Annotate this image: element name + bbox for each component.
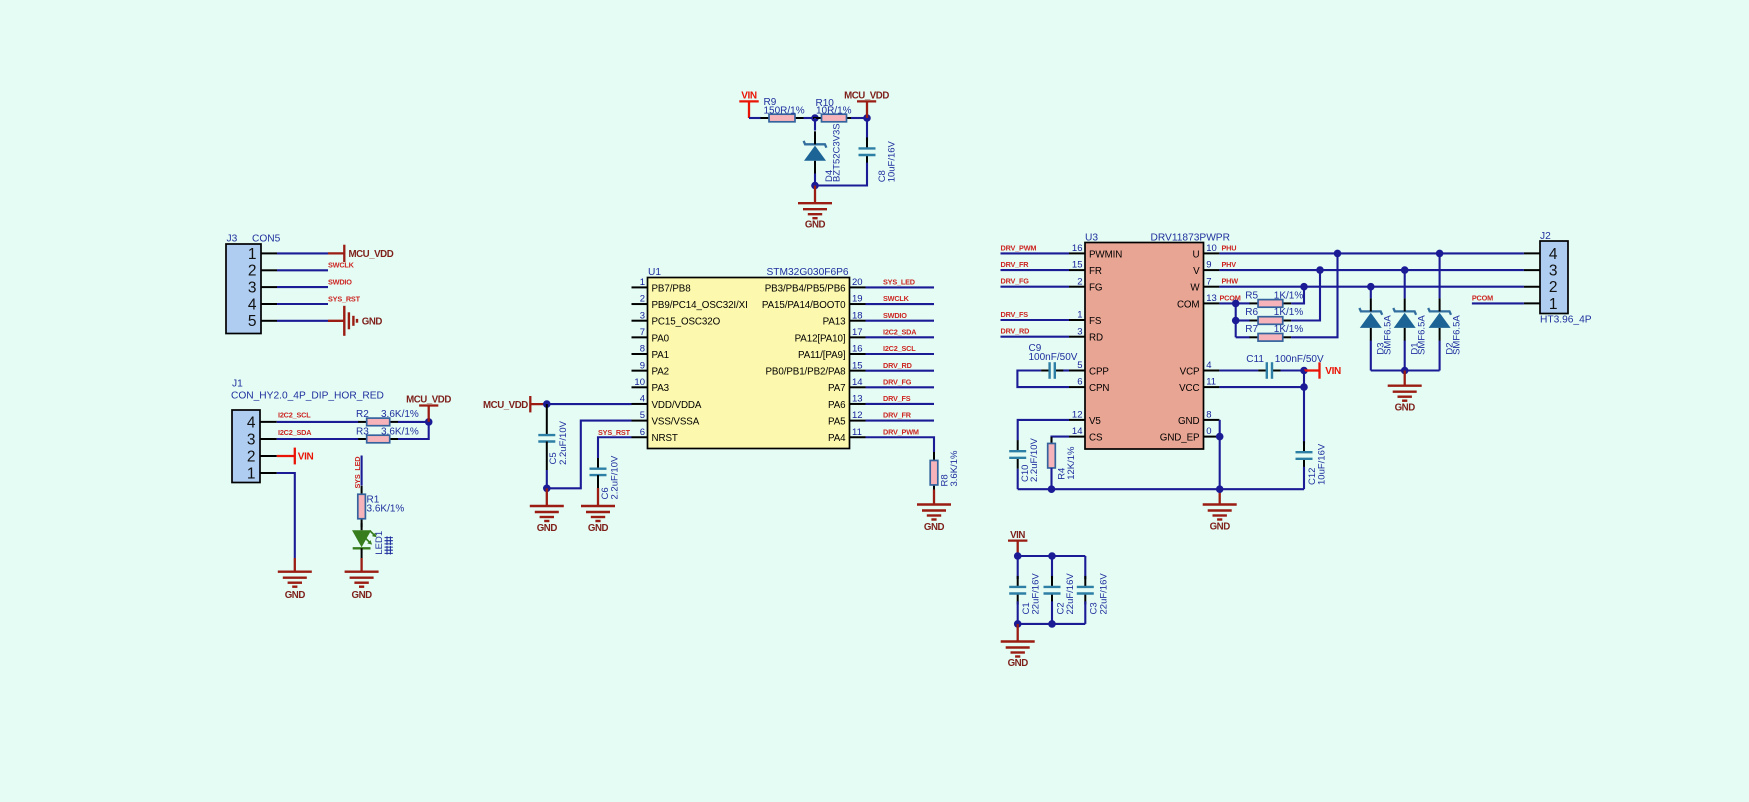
svg-text:16: 16 xyxy=(852,344,863,355)
pin 15 of U3 (FR) xyxy=(1069,260,1102,277)
svg-text:PA13: PA13 xyxy=(823,317,846,328)
pin 3 of J3 xyxy=(248,280,277,297)
svg-text:PA12[PA10]: PA12[PA10] xyxy=(795,333,846,344)
pin 9 of U1 (PA2) xyxy=(632,360,670,377)
svg-text:3.6K/1%: 3.6K/1% xyxy=(381,426,419,437)
wire xyxy=(851,117,867,119)
resistor R9 xyxy=(761,114,804,122)
svg-text:CPN: CPN xyxy=(1089,383,1109,394)
wire COM vertical xyxy=(1235,303,1237,337)
svg-text:U1: U1 xyxy=(648,267,661,278)
svg-text:GND_EP: GND_EP xyxy=(1160,433,1200,444)
junction xyxy=(1048,620,1056,628)
value (green LED chinese, vertical) xyxy=(385,536,393,554)
svg-text:2.2uF/10V: 2.2uF/10V xyxy=(1029,438,1040,482)
svg-text:PA6: PA6 xyxy=(828,400,846,411)
resistor R5 xyxy=(1250,300,1292,308)
wire xyxy=(277,473,295,558)
svg-text:VIN: VIN xyxy=(741,90,757,101)
wire R6 to V xyxy=(1291,270,1320,320)
svg-text:PA5: PA5 xyxy=(828,417,846,428)
junction GND_EP xyxy=(1216,433,1224,441)
svg-text:NRST: NRST xyxy=(652,433,678,444)
svg-text:3: 3 xyxy=(248,280,257,297)
svg-text:DRV_PWM: DRV_PWM xyxy=(883,427,919,436)
svg-text:PB0/PB1/PB2/PA8: PB0/PB1/PB2/PA8 xyxy=(765,367,846,378)
svg-text:CPP: CPP xyxy=(1089,366,1109,377)
svg-text:DRV_FG: DRV_FG xyxy=(883,377,912,386)
pin 5 of J3 xyxy=(248,313,277,330)
junction xyxy=(1048,485,1056,493)
diode D3 xyxy=(1359,298,1382,341)
power flag MCU_VDD (J3 pin1) xyxy=(328,245,394,262)
svg-text:3: 3 xyxy=(247,431,256,448)
wire D1 bottom xyxy=(1404,341,1406,371)
capacitor C3 xyxy=(1077,576,1094,605)
pin 2 of J3 xyxy=(248,263,277,280)
wire xyxy=(1001,269,1070,271)
wire C2 top xyxy=(1051,556,1053,579)
wire xyxy=(866,303,935,305)
pin 6 of U3 (CPN) xyxy=(1069,377,1109,394)
resistor R7 xyxy=(1250,334,1292,342)
wire diode rail xyxy=(1371,369,1440,371)
svg-text:10R/1%: 10R/1% xyxy=(816,105,852,116)
wire COM xyxy=(1219,302,1235,304)
op-amp U3 (driver DRV11873PWPR) xyxy=(1085,243,1204,450)
power flag MCU_VDD (U1) xyxy=(483,396,547,412)
svg-text:PA2: PA2 xyxy=(652,367,670,378)
svg-text:LED1: LED1 xyxy=(374,531,385,555)
wire xyxy=(866,420,935,422)
svg-text:DRV11873PWPR: DRV11873PWPR xyxy=(1151,232,1230,243)
ground xyxy=(798,186,832,231)
pin 4 of J1 xyxy=(247,414,277,431)
pin 9 of U3 (V) xyxy=(1193,260,1219,277)
wire xyxy=(398,422,429,439)
svg-text:DRV_RD: DRV_RD xyxy=(883,361,912,370)
pin 15 of U1 (PB0/PB1/PB2/PA8) xyxy=(765,360,865,377)
wire xyxy=(277,286,328,288)
svg-text:CON5: CON5 xyxy=(252,233,281,244)
junction xyxy=(1014,552,1022,560)
svg-text:R6: R6 xyxy=(1245,307,1258,318)
svg-text:VIN: VIN xyxy=(298,452,314,463)
wire xyxy=(546,470,548,488)
svg-text:PHW: PHW xyxy=(1222,277,1239,286)
svg-text:3.6K/1%: 3.6K/1% xyxy=(381,409,419,420)
ground xyxy=(345,558,379,601)
svg-text:1: 1 xyxy=(1077,310,1082,321)
svg-text:C11: C11 xyxy=(1246,354,1264,365)
svg-text:100nF/50V: 100nF/50V xyxy=(1275,354,1324,365)
ground xyxy=(917,490,951,533)
svg-text:V: V xyxy=(1193,266,1200,277)
svg-text:14: 14 xyxy=(1072,426,1083,437)
svg-text:MCU_VDD: MCU_VDD xyxy=(349,249,394,260)
wire xyxy=(1001,336,1070,338)
wire xyxy=(277,320,328,322)
svg-text:6: 6 xyxy=(1077,377,1082,388)
wire xyxy=(866,286,935,288)
wire xyxy=(804,117,816,119)
svg-text:12K/1%: 12K/1% xyxy=(1066,446,1077,480)
svg-text:J2: J2 xyxy=(1540,231,1551,242)
wire xyxy=(814,174,816,186)
capacitor C12 xyxy=(1296,441,1313,470)
svg-text:PB9/PC14_OSC32I/XI: PB9/PC14_OSC32I/XI xyxy=(652,300,748,311)
junction xyxy=(1300,283,1308,291)
capacitor C1 xyxy=(1009,576,1026,605)
pin 2 of U1 (PB9/PC14_OSC32I/XI) xyxy=(632,294,748,311)
svg-text:22uF/16V: 22uF/16V xyxy=(1098,573,1109,615)
svg-text:22uF/16V: 22uF/16V xyxy=(1065,573,1076,615)
connector J3 xyxy=(226,244,261,334)
ground xyxy=(530,488,564,534)
svg-text:9: 9 xyxy=(1206,260,1211,271)
junction xyxy=(1216,485,1224,493)
wire VCC vertical xyxy=(1303,371,1305,445)
svg-text:SWCLK: SWCLK xyxy=(883,294,910,303)
wire D2 bottom xyxy=(1439,341,1441,371)
svg-text:SYS_RST: SYS_RST xyxy=(598,428,631,437)
pin 16 of U1 (PA11/[PA9]) xyxy=(798,344,865,361)
pin 5 of U1 (VSS/VSSA) xyxy=(632,410,700,427)
wire D3 top xyxy=(1370,287,1372,299)
wire xyxy=(866,370,935,372)
pin 3 of U3 (RD) xyxy=(1069,326,1103,343)
svg-text:3.6K/1%: 3.6K/1% xyxy=(949,450,960,486)
diode D4 xyxy=(804,131,827,174)
svg-text:PA1: PA1 xyxy=(652,350,670,361)
capacitor C2 xyxy=(1044,576,1061,605)
pin 14 of U3 (CS) xyxy=(1069,426,1103,443)
wire CS xyxy=(1052,437,1070,444)
svg-text:1: 1 xyxy=(248,246,257,263)
pin 10 of U1 (PA3) xyxy=(632,377,670,394)
wire xyxy=(277,252,328,254)
pin 11 of U3 (VCC) xyxy=(1179,377,1219,394)
svg-text:J1: J1 xyxy=(232,378,243,389)
junction xyxy=(1232,317,1240,325)
pin 8 of U3 (GND) xyxy=(1178,410,1219,427)
wire D2 top xyxy=(1439,253,1441,298)
svg-text:2: 2 xyxy=(1549,279,1558,296)
svg-text:1: 1 xyxy=(1549,296,1558,313)
diode D2 xyxy=(1428,298,1451,341)
svg-text:16: 16 xyxy=(1072,243,1083,254)
svg-text:PC15_OSC32O: PC15_OSC32O xyxy=(652,317,721,328)
svg-text:0: 0 xyxy=(1206,426,1211,437)
pin 2 of J2 xyxy=(1524,279,1558,296)
junction xyxy=(1232,300,1240,308)
capacitor C8 xyxy=(859,137,876,166)
svg-text:PB3/PB4/PB5/PB6: PB3/PB4/PB5/PB6 xyxy=(765,283,846,294)
svg-text:PA3: PA3 xyxy=(652,383,670,394)
wire xyxy=(1001,286,1070,288)
svg-text:VCP: VCP xyxy=(1180,366,1200,377)
svg-text:R2: R2 xyxy=(356,409,369,420)
junction node MCU_VDD xyxy=(863,114,871,122)
wire xyxy=(866,386,935,388)
wire xyxy=(1001,252,1070,254)
junction D3 xyxy=(1367,283,1375,291)
junction VSS/C5 xyxy=(543,485,551,493)
pin 5 of U3 (CPP) xyxy=(1069,360,1109,377)
wire xyxy=(1050,468,1052,489)
svg-text:R3: R3 xyxy=(356,426,369,437)
svg-text:FR: FR xyxy=(1089,266,1102,277)
svg-text:SWDIO: SWDIO xyxy=(328,278,352,287)
svg-text:I2C2_SCL: I2C2_SCL xyxy=(883,344,916,353)
capacitor C10 xyxy=(1009,440,1026,469)
pin 13 of U3 (COM) xyxy=(1177,293,1219,310)
svg-text:DRV_FS: DRV_FS xyxy=(1001,310,1029,319)
svg-text:SMF6.5A: SMF6.5A xyxy=(1383,315,1394,355)
pin 7 of U1 (PA0) xyxy=(632,327,670,344)
wire D3 bottom xyxy=(1370,341,1372,371)
svg-text:2: 2 xyxy=(248,263,257,280)
svg-text:1: 1 xyxy=(640,277,645,288)
pin 18 of U1 (PA13) xyxy=(823,310,866,327)
connector J2 xyxy=(1540,241,1568,314)
svg-text:SYS_RST: SYS_RST xyxy=(328,294,361,303)
power flag MCU_VDD (J1) xyxy=(406,395,451,422)
wire R5 to W xyxy=(1291,287,1304,304)
wire C3 top xyxy=(1084,556,1086,579)
svg-text:4: 4 xyxy=(248,296,257,313)
wire xyxy=(1059,369,1070,371)
wire xyxy=(277,303,328,305)
svg-text:GND: GND xyxy=(352,590,373,601)
svg-text:15: 15 xyxy=(852,360,863,371)
svg-text:14: 14 xyxy=(852,377,863,388)
wire ground rail xyxy=(1018,488,1304,490)
svg-text:1K/1%: 1K/1% xyxy=(1274,324,1304,335)
svg-text:5: 5 xyxy=(640,410,645,421)
svg-text:GND: GND xyxy=(1008,658,1029,669)
pin 2 of J1 xyxy=(247,448,277,465)
wire R7 to U xyxy=(1291,253,1337,337)
ground xyxy=(1001,624,1035,669)
svg-text:I2C2_SDA: I2C2_SDA xyxy=(278,428,312,437)
pin 4 of J3 xyxy=(248,296,277,313)
wire CPN loop xyxy=(1017,371,1069,388)
svg-text:10uF/16V: 10uF/16V xyxy=(1317,443,1328,485)
svg-text:VDD/VDDA: VDD/VDDA xyxy=(652,400,702,411)
svg-text:2: 2 xyxy=(1077,276,1082,287)
svg-text:13: 13 xyxy=(852,394,863,405)
svg-text:11: 11 xyxy=(852,427,862,438)
pin 17 of U1 (PA12[PA10]) xyxy=(795,327,866,344)
svg-text:SWDIO: SWDIO xyxy=(883,311,907,320)
wire COM to R5 xyxy=(1236,302,1250,304)
capacitor C5 xyxy=(538,404,555,470)
wire phase W xyxy=(1219,286,1524,288)
pin 3 of J2 xyxy=(1524,263,1558,280)
wire GND to rail xyxy=(1219,420,1221,489)
svg-text:GND: GND xyxy=(1178,416,1199,427)
op-amp U1 (MCU STM32G030F6P6) xyxy=(648,278,850,449)
svg-text:1K/1%: 1K/1% xyxy=(1274,307,1304,318)
svg-text:100nF/50V: 100nF/50V xyxy=(1029,352,1078,363)
pin 10 of U3 (U) xyxy=(1193,243,1220,260)
svg-text:19: 19 xyxy=(852,294,863,305)
pin 13 of U1 (PA6) xyxy=(828,394,866,411)
svg-text:RD: RD xyxy=(1089,333,1103,344)
wire xyxy=(277,421,359,423)
power flag VIN (C11) xyxy=(1304,362,1341,378)
junction xyxy=(1048,552,1056,560)
svg-text:1K/1%: 1K/1% xyxy=(1274,290,1304,301)
pin 12 of U3 (V5) xyxy=(1069,410,1101,427)
svg-text:DRV_FS: DRV_FS xyxy=(883,394,911,403)
svg-text:7: 7 xyxy=(640,327,645,338)
wire C1 top xyxy=(1017,556,1019,579)
ground (J3 pin5, rotated) xyxy=(328,306,382,336)
wire xyxy=(277,269,328,271)
svg-text:DRV_FR: DRV_FR xyxy=(883,411,912,420)
svg-text:FG: FG xyxy=(1089,283,1102,294)
svg-text:10: 10 xyxy=(1206,243,1217,254)
svg-text:8: 8 xyxy=(1206,410,1211,421)
wire V5 xyxy=(1018,420,1069,441)
resistor R1 xyxy=(358,486,366,528)
ground xyxy=(1203,489,1237,532)
pin 1 of J1 xyxy=(247,465,277,482)
svg-text:V5: V5 xyxy=(1089,416,1101,427)
junction xyxy=(811,182,819,190)
junction MCU_VDD/C5 xyxy=(543,400,551,408)
resistor R8 xyxy=(930,452,938,494)
svg-text:GND: GND xyxy=(362,317,383,328)
svg-text:4: 4 xyxy=(1549,246,1558,263)
pin 1 of U1 (PB7/PB8) xyxy=(632,277,692,294)
svg-text:W: W xyxy=(1190,283,1200,294)
svg-text:17: 17 xyxy=(852,327,863,338)
pin 1 of U3 (FS) xyxy=(1069,310,1102,327)
wire NRST xyxy=(598,437,632,458)
wire VIN rail xyxy=(1018,555,1086,557)
wire ground rail (caps) xyxy=(1018,623,1086,625)
svg-text:2: 2 xyxy=(640,294,645,305)
junction xyxy=(1300,383,1308,391)
svg-text:VIN: VIN xyxy=(1010,530,1025,541)
svg-text:MCU_VDD: MCU_VDD xyxy=(483,400,528,411)
wire xyxy=(749,117,761,119)
svg-text:PHV: PHV xyxy=(1222,260,1237,269)
pin 3 of U1 (PC15_OSC32O) xyxy=(632,310,721,327)
svg-text:GND: GND xyxy=(537,523,558,534)
power flag VIN (bottom) xyxy=(1008,530,1027,556)
pin 4 of J2 xyxy=(1524,246,1558,263)
wire C1 bottom xyxy=(1017,601,1019,624)
svg-text:3.6K/1%: 3.6K/1% xyxy=(367,503,405,514)
svg-text:SMF6.5A: SMF6.5A xyxy=(1417,315,1428,355)
power flag MCU_VDD (top) xyxy=(844,90,889,118)
pin 7 of U3 (W) xyxy=(1190,276,1219,293)
pin 1 of J2 xyxy=(1524,296,1558,313)
pin 2 of U3 (FG) xyxy=(1069,276,1102,293)
svg-text:SYS_LED: SYS_LED xyxy=(883,278,915,287)
wire COM to R7 xyxy=(1236,336,1250,338)
wire C2 bottom xyxy=(1051,601,1053,624)
junction xyxy=(1316,266,1324,274)
svg-text:PWMIN: PWMIN xyxy=(1089,249,1122,260)
junction node VIN_REG xyxy=(811,114,819,122)
svg-text:8: 8 xyxy=(640,344,645,355)
wire xyxy=(361,456,363,486)
power flag VIN (J1 pin2) xyxy=(277,448,314,465)
resistor R10 xyxy=(813,114,855,122)
svg-text:R7: R7 xyxy=(1245,324,1258,335)
svg-text:HT3.96_4P: HT3.96_4P xyxy=(1540,314,1592,325)
resistor R6 xyxy=(1250,317,1292,325)
svg-text:4: 4 xyxy=(1206,360,1211,371)
pin 16 of U3 (PWMIN) xyxy=(1069,243,1122,260)
wire phase V xyxy=(1219,269,1524,271)
svg-text:PB7/PB8: PB7/PB8 xyxy=(652,283,692,294)
svg-text:MCU_VDD: MCU_VDD xyxy=(406,395,451,406)
wire xyxy=(1001,319,1070,321)
svg-text:3: 3 xyxy=(640,310,645,321)
pin 1 of J3 xyxy=(248,246,277,263)
pin 4 of U1 (VDD/VDDA) xyxy=(632,394,702,411)
svg-text:5: 5 xyxy=(248,313,257,330)
svg-text:20: 20 xyxy=(852,277,863,288)
svg-text:STM32G030F6P6: STM32G030F6P6 xyxy=(766,267,848,278)
svg-text:10uF/16V: 10uF/16V xyxy=(887,140,898,182)
capacitor C11 xyxy=(1258,362,1280,379)
pin 8 of U1 (PA1) xyxy=(632,344,670,361)
svg-text:GND: GND xyxy=(588,523,609,534)
ground xyxy=(278,558,312,601)
svg-text:DRV_FG: DRV_FG xyxy=(1001,277,1030,286)
wire xyxy=(866,336,935,338)
junction D1 xyxy=(1401,266,1409,274)
resistor R4 xyxy=(1048,437,1056,475)
svg-text:PCOM: PCOM xyxy=(1472,294,1493,303)
svg-text:J3: J3 xyxy=(227,233,238,244)
svg-text:GND: GND xyxy=(1210,522,1231,533)
svg-text:18: 18 xyxy=(852,310,863,321)
wire xyxy=(1303,467,1305,489)
svg-text:2.2uF/10V: 2.2uF/10V xyxy=(558,420,569,464)
svg-text:I2C2_SDA: I2C2_SDA xyxy=(883,327,917,336)
svg-text:MCU_VDD: MCU_VDD xyxy=(844,90,889,101)
svg-text:15: 15 xyxy=(1072,260,1083,271)
svg-text:CS: CS xyxy=(1089,433,1103,444)
svg-text:9: 9 xyxy=(640,360,645,371)
svg-text:U: U xyxy=(1193,249,1200,260)
junction xyxy=(1014,620,1022,628)
svg-text:4: 4 xyxy=(247,414,256,431)
pin 11 of U1 (PA4) xyxy=(828,427,866,444)
svg-text:DRV_FR: DRV_FR xyxy=(1001,260,1030,269)
ground xyxy=(1388,371,1422,414)
wire PCOM xyxy=(1472,302,1524,304)
diode D1 xyxy=(1393,298,1416,341)
wire xyxy=(547,403,632,405)
svg-text:VIN: VIN xyxy=(1325,366,1341,377)
svg-text:11: 11 xyxy=(1206,377,1216,388)
pin 14 of U1 (PA7) xyxy=(828,377,866,394)
svg-text:3: 3 xyxy=(1077,326,1082,337)
wire xyxy=(866,437,935,452)
resistor R2 xyxy=(358,418,398,426)
svg-text:VCC: VCC xyxy=(1179,383,1199,394)
svg-text:SMF6.5A: SMF6.5A xyxy=(1451,315,1462,355)
